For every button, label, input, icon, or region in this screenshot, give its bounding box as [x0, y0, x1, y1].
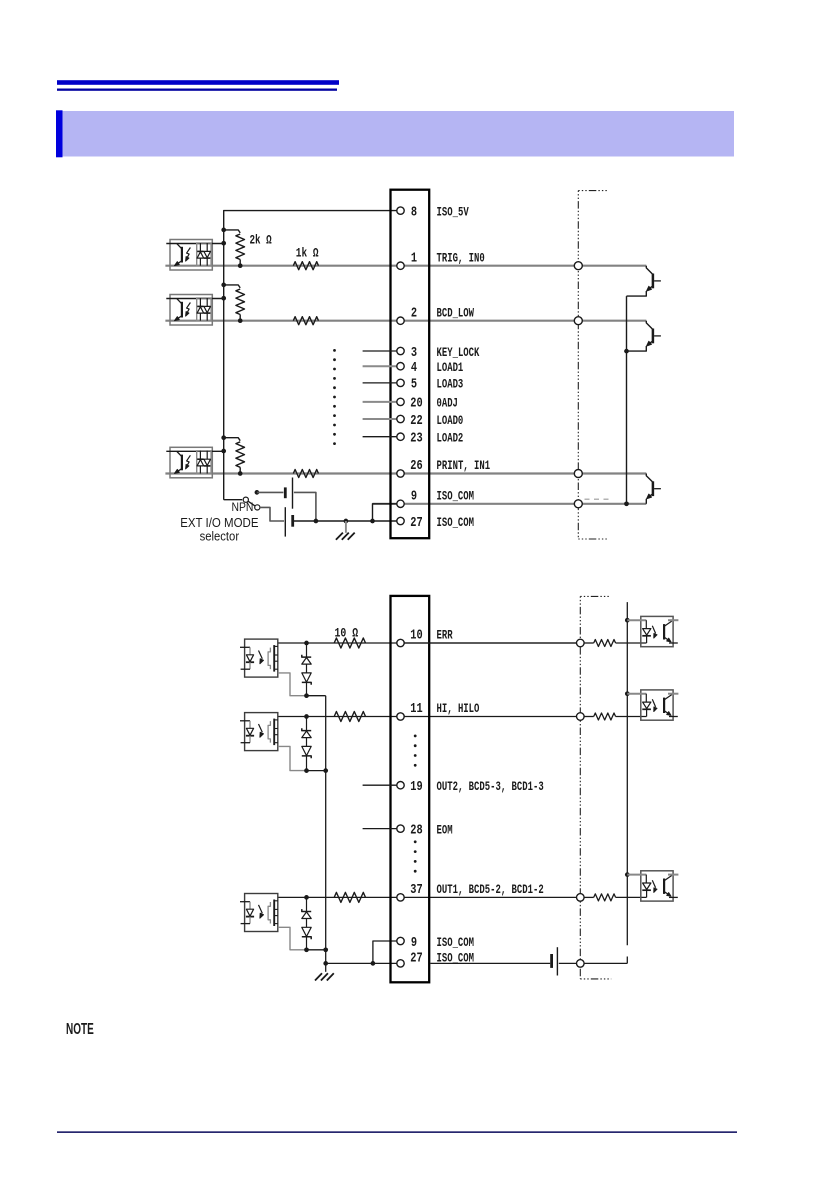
- node circle pin 10 at boundary (lower): [577, 639, 585, 647]
- resistor R6 (PRINT series): [293, 470, 318, 478]
- svg-text:ISO_5V: ISO_5V: [437, 204, 469, 219]
- svg-text:1k Ω: 1k Ω: [296, 245, 319, 260]
- pin 22 LOAD0: [397, 413, 464, 429]
- svg-text:27: 27: [410, 515, 422, 531]
- ellipsis dots (unconnected pins, top): [333, 349, 336, 445]
- svg-text:0ADJ: 0ADJ: [437, 396, 458, 411]
- junction dot rail PC8: [625, 691, 630, 696]
- pin 8 ISO_5V: [397, 204, 469, 220]
- svg-text:OUT2, BCD5-3, BCD1-3: OUT2, BCD5-3, BCD1-3: [437, 779, 544, 794]
- node circle pin 11 at boundary (lower): [577, 713, 585, 721]
- zener pair D1 D2: [302, 641, 311, 698]
- svg-text:5: 5: [411, 377, 417, 393]
- svg-text:22: 22: [410, 413, 422, 429]
- junction dot rail PC9: [625, 872, 630, 877]
- junction dots R1: [221, 228, 242, 269]
- stub wire pin 3: [363, 350, 397, 352]
- wire HI,HILO row: [278, 716, 581, 718]
- stub wire pin 22: [363, 418, 397, 420]
- svg-text:LOAD0: LOAD0: [437, 413, 464, 428]
- node circle pin 2 at boundary: [574, 317, 582, 325]
- pin 2 BCD_LOW: [397, 305, 474, 324]
- svg-text:20: 20: [410, 396, 422, 412]
- ground (lower): [315, 963, 334, 980]
- node circle pin 9 at boundary: [574, 500, 582, 508]
- wire right-side rail: [626, 602, 628, 963]
- dashed mark near pin 9: [585, 498, 613, 500]
- stub wire pin 19: [363, 784, 397, 786]
- svg-text:KEY_LOCK: KEY_LOCK: [437, 345, 480, 360]
- svg-text:4: 4: [411, 360, 417, 376]
- optocoupler PC7 (external): [627, 616, 678, 646]
- pin 26 PRINT, IN1: [397, 458, 490, 477]
- wire PC5 emitter to rail: [278, 746, 326, 770]
- resistor R4 (BCD_LOW series): [293, 317, 318, 325]
- svg-text:BCD_LOW: BCD_LOW: [437, 305, 475, 320]
- wire ISO_COM bottom net: [326, 941, 397, 966]
- wire PC4 emitter to rail: [278, 673, 326, 696]
- wire ERR row: [278, 642, 581, 644]
- zener pair D5 D6: [302, 895, 311, 952]
- svg-text:8: 8: [411, 204, 417, 220]
- svg-text:3: 3: [411, 345, 417, 361]
- pin 20 0ADJ: [397, 396, 458, 412]
- pin 37 OUT1, BCD5-2, BCD1-2: [397, 882, 544, 901]
- pin 27 ISO_COM: [397, 515, 474, 531]
- svg-text:26: 26: [410, 458, 422, 474]
- svg-text:ISO_COM: ISO_COM: [437, 935, 475, 950]
- zener pair D3 D4: [302, 714, 311, 773]
- pin 10 ERR: [397, 628, 453, 647]
- transistor Q2 (external NPN): [627, 321, 661, 351]
- svg-text:NPN: NPN: [232, 500, 254, 514]
- wire PRINT row (gray): [165, 472, 646, 474]
- optocoupler PC2 (input photocoupler): [166, 295, 223, 326]
- node circle pin 27 at boundary (lower): [577, 960, 585, 968]
- optocoupler PC1 (input photocoupler): [166, 240, 223, 271]
- pin 9 ISO_COM: [397, 935, 474, 951]
- svg-text:28: 28: [410, 822, 422, 838]
- pin 1 TRIG, IN0: [397, 250, 485, 269]
- battery B3 (external): [430, 947, 576, 975]
- optocoupler PC3 (input photocoupler): [166, 447, 223, 478]
- svg-text:LOAD3: LOAD3: [437, 377, 464, 392]
- svg-text:ISO_COM: ISO_COM: [437, 488, 475, 503]
- svg-text:11: 11: [410, 701, 422, 717]
- pin 9 ISO_COM: [397, 488, 474, 507]
- optocoupler PC6 (output photocoupler): [240, 894, 278, 932]
- connector J2 body: [391, 596, 430, 982]
- node circle pin 1 at boundary: [574, 262, 582, 270]
- wire ISO_COM pin27 net: [294, 504, 397, 524]
- pin 3 KEY_LOCK: [397, 345, 480, 361]
- junction dot rail PC7: [625, 618, 630, 623]
- junction dots R5: [221, 435, 242, 476]
- stub wire pin 28: [363, 828, 397, 830]
- svg-text:9: 9: [411, 935, 417, 951]
- svg-text:ERR: ERR: [437, 628, 453, 643]
- junction dots R3: [221, 283, 242, 324]
- switch S1 EXT I/O MODE selector: [224, 490, 260, 510]
- resistor R7 10 ohm: [334, 638, 365, 648]
- battery B1 (PNP bias): [257, 478, 316, 522]
- footer rule: [57, 1131, 737, 1133]
- external device boundary (dotted, lower): [580, 596, 611, 979]
- pin 23 LOAD2: [397, 431, 464, 447]
- resistor external row 37: [594, 894, 616, 901]
- svg-text:37: 37: [410, 882, 422, 898]
- svg-text:23: 23: [410, 431, 422, 447]
- stub wire pin 5: [363, 382, 397, 384]
- wire TRIG row (gray): [165, 265, 646, 267]
- svg-text:19: 19: [410, 779, 422, 795]
- svg-text:TRIG, IN0: TRIG, IN0: [437, 250, 485, 265]
- wire row 11 to opto: [584, 716, 647, 718]
- svg-text:NOTE: NOTE: [66, 1021, 94, 1038]
- wire ISO_COM pin9 row (gray): [373, 503, 647, 505]
- pin 28 EOM: [397, 822, 453, 838]
- stub wire pin 23: [363, 436, 397, 438]
- stub wire pin 20: [363, 401, 397, 403]
- wire PC6 emitter to rail: [278, 927, 326, 950]
- pin 11 HI, HILO: [397, 701, 480, 720]
- svg-text:10 Ω: 10 Ω: [335, 626, 359, 641]
- svg-text:EXT I/O MODE: EXT I/O MODE: [180, 516, 258, 530]
- wire ISO_COM to right rail: [584, 962, 627, 964]
- wire ERR row inside connector: [404, 642, 580, 644]
- svg-text:9: 9: [411, 488, 417, 504]
- resistor R3 (2k pull-up): [224, 285, 245, 321]
- svg-text:PRINT, IN1: PRINT, IN1: [437, 458, 491, 473]
- pin 4 LOAD1: [397, 360, 464, 376]
- resistor R8: [334, 712, 365, 722]
- page header double rule: [57, 80, 339, 91]
- svg-text:HI, HILO: HI, HILO: [437, 701, 480, 716]
- svg-text:OUT1, BCD5-2, BCD1-2: OUT1, BCD5-2, BCD1-2: [437, 882, 544, 897]
- svg-text:ISO_COM: ISO_COM: [437, 515, 475, 530]
- svg-text:LOAD1: LOAD1: [437, 360, 464, 375]
- battery B2 (NPN bias): [260, 507, 293, 536]
- optocoupler PC4 (output photocoupler): [240, 639, 278, 677]
- ellipsis dots (lower, 11-19): [414, 735, 417, 767]
- svg-text:10: 10: [410, 628, 422, 644]
- svg-text:selector: selector: [200, 529, 240, 543]
- svg-text:2k Ω: 2k Ω: [250, 233, 272, 248]
- resistor external row 11: [594, 713, 616, 720]
- ground (chassis): [336, 521, 355, 540]
- resistor external row 10: [594, 640, 616, 647]
- resistor R2 1k (TRIG series): [293, 262, 318, 270]
- wire row 37 to opto: [584, 896, 647, 898]
- resistor R9: [334, 892, 365, 902]
- connector J1 body: [391, 190, 430, 539]
- svg-text:EOM: EOM: [437, 822, 453, 837]
- pin 19 OUT2, BCD5-3, BCD1-3: [397, 779, 544, 795]
- optocoupler PC5 (output photocoupler): [240, 713, 278, 751]
- optocoupler PC8 (external): [627, 690, 678, 720]
- section title banner: [56, 110, 734, 157]
- wire BCD_LOW row (gray): [165, 320, 646, 322]
- wire external emitter rail: [624, 296, 629, 506]
- svg-text:2: 2: [411, 305, 417, 321]
- pin 5 LOAD3: [397, 377, 464, 393]
- ellipsis dots (lower, 28-37): [414, 840, 417, 872]
- external device boundary (dotted, top): [578, 191, 609, 539]
- svg-text:LOAD2: LOAD2: [437, 431, 464, 446]
- node circle pin 26 at boundary: [574, 470, 582, 478]
- transistor Q1 (external NPN): [627, 266, 661, 296]
- optocoupler PC9 (external): [627, 871, 678, 901]
- svg-text:1: 1: [411, 250, 417, 266]
- transistor Q3 (external NPN): [646, 474, 661, 504]
- wire left ISO_COM rail: [323, 696, 328, 966]
- wire row 10 to opto: [584, 642, 647, 644]
- resistor R1 (2k pull-up): [224, 230, 245, 266]
- svg-text:27: 27: [410, 951, 422, 967]
- wire ISO_5V rail: [224, 211, 397, 500]
- pin 27 ISO_COM: [397, 951, 474, 968]
- stub wire pin 4: [363, 365, 397, 367]
- node circle pin 37 at boundary (lower): [577, 894, 585, 902]
- wire OUT1 row: [278, 896, 581, 898]
- resistor R5 (2k pull-up): [224, 438, 245, 474]
